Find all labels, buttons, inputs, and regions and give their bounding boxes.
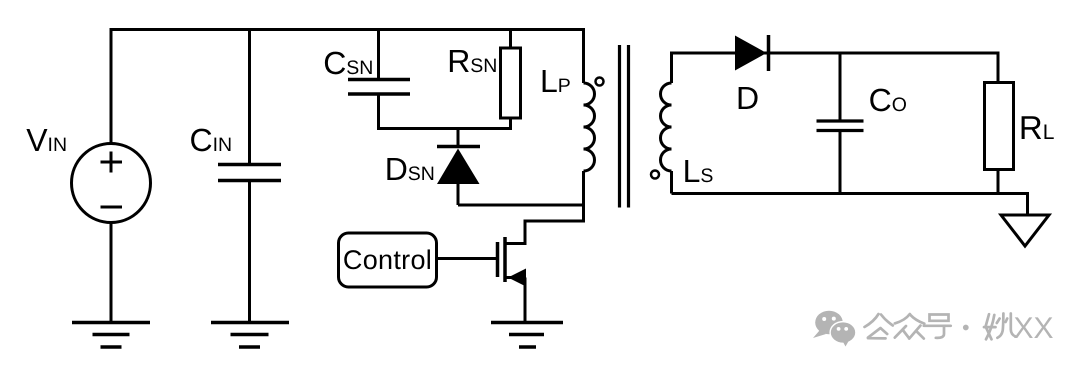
svg-text:RSN: RSN <box>447 43 497 79</box>
svg-text:CSN: CSN <box>323 45 373 81</box>
wire CSN top <box>377 28 380 78</box>
diode D <box>735 35 769 71</box>
voltage source VIN <box>72 144 151 223</box>
ground earth triangle <box>1001 215 1049 246</box>
wire drain path <box>506 221 585 244</box>
wire source <box>524 278 527 322</box>
wire snubber return <box>458 204 585 207</box>
resistor RSN <box>501 48 521 118</box>
svg-text:Control: Control <box>343 245 432 275</box>
dot LP polarity <box>596 78 604 86</box>
char gong <box>865 314 893 338</box>
wire CO top <box>839 53 842 120</box>
wire RL bottom <box>997 170 1000 194</box>
control block <box>339 233 437 287</box>
svg-text:D: D <box>736 80 759 116</box>
transistor Q1 <box>498 237 527 287</box>
capacitor CO <box>817 121 864 131</box>
watermark text <box>865 314 1016 340</box>
capacitor CSN <box>348 80 410 95</box>
dot separator <box>963 325 969 331</box>
wire CIN top <box>248 28 251 163</box>
wire CO bottom <box>839 132 842 194</box>
wire gate <box>436 257 498 260</box>
svg-text:CO: CO <box>869 82 907 118</box>
ground CIN <box>211 323 289 348</box>
wire snubber bottom <box>377 127 512 130</box>
diode DSN <box>437 147 480 206</box>
wire DSN top <box>457 129 460 147</box>
wire RSN top <box>509 28 512 48</box>
svg-text:LS: LS <box>683 153 714 189</box>
inductor LS <box>661 53 999 194</box>
svg-text:DSN: DSN <box>385 151 435 187</box>
svg-text:VIN: VIN <box>26 122 67 158</box>
wire CIN bottom <box>248 182 251 321</box>
ground VIN <box>72 323 150 348</box>
resistor RL <box>985 83 1014 170</box>
inductor LP <box>584 28 595 223</box>
wire CSN bottom <box>377 96 380 131</box>
dot LS polarity <box>651 171 659 179</box>
wire bottom rail <box>672 194 1028 216</box>
capacitor CIN <box>218 165 281 181</box>
transformer core <box>620 45 629 208</box>
char hao <box>924 315 951 338</box>
char yao <box>984 314 1015 340</box>
svg-text:CIN: CIN <box>190 122 233 158</box>
wire top rail <box>110 28 586 31</box>
ground Q1 <box>491 323 563 348</box>
watermark wechat icon <box>813 311 857 347</box>
svg-text:XX: XX <box>1014 312 1054 345</box>
svg-text:LP: LP <box>540 63 571 99</box>
svg-text:RL: RL <box>1019 109 1055 146</box>
wire RSN bottom <box>509 118 512 130</box>
wire VIN bottom <box>110 223 113 323</box>
wire VIN top <box>110 28 113 144</box>
char zhong <box>895 314 925 339</box>
